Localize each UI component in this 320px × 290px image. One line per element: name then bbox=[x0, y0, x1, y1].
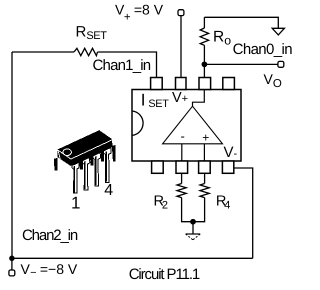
wire V+ terminal to pin bbox=[180, 16, 182, 78]
back leg 2 bbox=[79, 156, 83, 169]
resistor Ro bbox=[200, 17, 208, 62]
svg-text:1: 1 bbox=[71, 194, 80, 213]
back leg far-left bbox=[54, 158, 57, 171]
terminal Vo output bbox=[278, 61, 284, 67]
wire right vertical bbox=[234, 168, 252, 258]
node ground junction bbox=[191, 220, 195, 224]
back leg 4 bbox=[101, 146, 105, 161]
svg-text:V+: V+ bbox=[172, 90, 188, 106]
IC notch bbox=[132, 111, 143, 135]
svg-text:Chan0_in: Chan0_in bbox=[233, 41, 293, 58]
svg-text:Chan2_in: Chan2_in bbox=[22, 227, 78, 244]
node V- junction bbox=[10, 256, 14, 260]
terminal V+ supply bbox=[178, 10, 184, 16]
svg-text:V− =−8 V: V− =−8 V bbox=[21, 261, 78, 279]
DIP body bbox=[57, 130, 112, 166]
wire inverting input stub bbox=[181, 144, 183, 161]
pin bottom 4 (V- chip) bbox=[222, 161, 233, 173]
resistor R4 bbox=[193, 184, 209, 222]
wire Ro top net bbox=[204, 17, 278, 28]
svg-text:Chan1_in: Chan1_in bbox=[93, 57, 151, 74]
wire pin bottom 3 to R4 bbox=[204, 173, 206, 183]
op-amp triangle A1 bbox=[163, 106, 223, 144]
pin bottom 2 (inverting) bbox=[176, 161, 188, 173]
pin bottom 3 (non-inverting) bbox=[199, 161, 211, 173]
svg-text:-: - bbox=[181, 129, 185, 144]
svg-text:4: 4 bbox=[104, 182, 113, 199]
wire bottom horizontal bbox=[12, 257, 253, 259]
ground symbol bbox=[186, 233, 201, 235]
op-amp IC body U1 bbox=[132, 90, 241, 162]
back leg 3 bbox=[90, 151, 94, 165]
pin top 1 bbox=[151, 78, 163, 90]
pin1 dimple bbox=[63, 149, 71, 156]
wire junction to pin V+chip bbox=[203, 64, 205, 77]
DIP front leg 3 bbox=[93, 152, 100, 186]
wire pin bottom 2 to R2 bbox=[181, 173, 183, 183]
DIP front leg 1 bbox=[72, 162, 79, 193]
resistor RSET bbox=[74, 48, 98, 55]
terminal V- supply bbox=[9, 270, 15, 276]
pin top 2 (V+) bbox=[176, 78, 187, 90]
wire non-inverting input stub bbox=[203, 144, 205, 161]
resistor R2 bbox=[177, 184, 193, 222]
wire to ground bbox=[192, 222, 194, 234]
svg-text:SET: SET bbox=[148, 98, 169, 110]
svg-text:Circuit P11.1: Circuit P11.1 bbox=[129, 266, 200, 283]
DIP body top face edge highlight bbox=[58, 140, 112, 159]
back leg far-right bbox=[112, 145, 116, 161]
node Vo junction bbox=[202, 62, 206, 66]
pin top 4 bbox=[223, 78, 235, 90]
svg-text:+: + bbox=[202, 131, 209, 145]
DIP front leg 2 bbox=[82, 157, 89, 190]
DIP-8 package illustration bbox=[54, 130, 116, 193]
wire to V- terminal bbox=[11, 258, 13, 270]
svg-text:I: I bbox=[141, 91, 146, 110]
wire left vertical bbox=[11, 52, 13, 258]
pin top 3 (output) bbox=[199, 78, 211, 90]
off-page arrow Chan0 bbox=[272, 28, 284, 35]
DIP front leg 4 bbox=[104, 148, 111, 183]
wire op-amp output to pin top 3 bbox=[193, 90, 205, 107]
pin bottom 1 bbox=[152, 161, 164, 173]
wire top-left horizontal (Chan1_in net) bbox=[12, 52, 157, 78]
wire junction to Vo terminal bbox=[204, 63, 278, 65]
